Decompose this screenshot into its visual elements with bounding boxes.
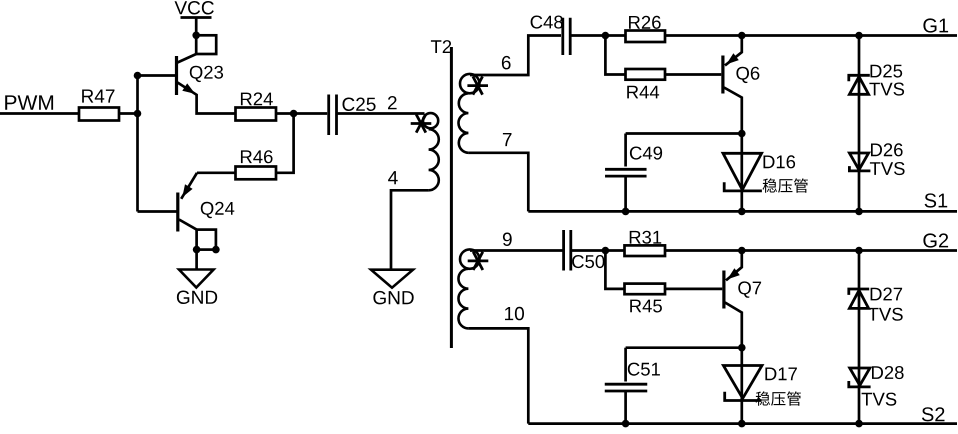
label C48 [531,16,563,29]
wire C25 to T2 pin2 [337,112,425,115]
label C49 [630,147,662,160]
Q24 collector loop square [197,230,216,250]
label R44 [627,86,659,99]
node S2 label [922,407,945,421]
wire R46 to Q24 emitter [197,171,236,174]
label D28 [872,366,904,379]
label D26 TVS [870,162,905,175]
wire to GND [195,250,198,270]
capacitor C50 [564,230,571,271]
label GND transformer [373,291,413,305]
junction Q23 base [134,72,142,80]
label Q24 [201,202,235,218]
node G2 label [923,233,948,247]
label T2 [431,40,451,53]
junction C48/R26/R44 [602,32,610,40]
wire junction down to R46 [276,114,294,173]
wire pin 6 to C48 [470,36,561,76]
capacitor C49 [605,169,647,176]
transformer T2 core [450,47,453,348]
label R31 [630,231,662,244]
pin 6 label [502,56,511,69]
zener diode D17 [740,348,743,424]
junction C50/R31/R45 [602,247,610,255]
label D17 [765,368,797,381]
label Q6 [736,67,759,83]
wire pin 10 down to S2 rail [468,328,528,423]
wire C50 to R31 [571,249,625,252]
label D25 [871,65,903,78]
polarity mark secondary 2 [468,252,489,270]
wire R47 to junction [119,112,138,115]
label D27 TVS [868,308,903,321]
TVS diode D26 [849,153,868,170]
label C25 [343,98,376,112]
junction square bottom-right [212,246,220,254]
resistor R46 [236,167,277,180]
wire junction down to R44 [605,36,625,75]
label R47 [82,90,114,103]
resistor R31 [625,245,666,256]
TVS diode D28 [850,368,870,385]
wire C49 to S1 rail [624,176,627,211]
pin 2 label [388,96,397,109]
node PWM label [5,95,53,109]
junction D17 / S2 [738,420,746,428]
TVS diode D27 [849,290,868,308]
junction TVS bottom / S1 [855,208,863,216]
resistor R44 [626,69,666,80]
label D16 zener (Chinese) [763,178,808,192]
label D17 zener (Chinese) [756,391,801,405]
ground GND (transformer pin 4) [371,270,413,288]
polarity mark primary [411,114,432,132]
wire TVS branch G2-S2 [858,251,861,424]
junction TVS top / G2 [855,247,863,255]
transistor Q6 [721,56,724,94]
transistor Q7 [722,271,725,309]
label D16 [764,155,796,168]
wire R31 to G2 [665,249,957,252]
transformer T2 secondary winding 1 [460,74,479,93]
TVS diode D25 [849,77,868,95]
label D26 [871,143,903,156]
wire R26 to G1 [665,34,957,37]
power VCC bar [181,16,212,19]
Q23 collector loop square [196,35,216,54]
junction Q7 collector / C51 / D17 [738,344,746,352]
power VCC label [175,1,214,15]
junction TVS top / G1 [855,32,863,40]
transformer T2 primary winding [423,113,438,128]
junction D16 / S1 [738,208,746,216]
label D27 [871,288,903,301]
wire S1 rail [528,210,957,213]
wire down to C51 [624,348,627,382]
junction Q6 emitter / G1 [738,32,746,40]
junction VCC/Q23 collector loop [192,32,200,40]
resistor R26 [626,31,666,43]
transistor Q23 [175,56,178,95]
label R26 [629,16,661,29]
capacitor C51 [605,384,648,391]
wire R44 to Q6 base [665,73,721,76]
label Q7 [738,281,761,297]
label GND driver [177,291,217,305]
resistor R24 [236,108,277,121]
wire down to C49 [624,134,627,167]
wire S2 rail [528,422,957,425]
node G1 label [923,18,948,32]
label D28 TVS [862,393,897,406]
junction C51 / S2 [622,420,630,428]
junction R47/base bus [134,110,142,118]
label Q23 [190,66,223,82]
label D25 TVS [869,83,904,96]
wire R45 to Q7 base [665,288,722,291]
label R24 [241,92,273,105]
wire Q7 collector to C51 [626,346,742,349]
transformer T2 secondary winding 2 [460,249,479,268]
junction C49 / S1 [622,208,630,216]
junction R24/R46 [290,110,298,118]
wire base bus vertical [136,76,139,212]
zener diode D16 [740,134,743,212]
resistor R45 [625,284,666,295]
wire R24 to C25 [276,112,327,115]
capacitor C48 [563,18,570,55]
ground GND (driver) [179,270,214,288]
wire PWM input [0,112,79,115]
junction Q6 collector / C49 / D16 [738,130,746,138]
junction square bottom-left [193,246,201,254]
junction TVS bottom / S2 [855,420,863,428]
resistor R47 [79,108,119,121]
capacitor C25 [329,94,337,135]
wire C51 to S2 rail [624,391,627,424]
label R46 [241,150,273,163]
transistor Q24 [176,193,179,232]
node S1 label [925,193,948,207]
label R45 [630,300,662,313]
pin 9 label [503,233,512,247]
wire to Q23 base [138,74,176,77]
wire pin 9 to C50 [470,249,563,252]
label C50 [572,255,604,268]
wire VCC down [195,18,198,37]
wire T2 pin4 to GND [391,190,429,269]
pin 7 label [503,133,512,146]
wire junction down to R45 [605,251,624,289]
pin 4 label [388,171,398,184]
wire Q6 collector to C49 [626,132,742,135]
polarity mark secondary 1 [467,77,488,95]
label C51 [628,363,660,376]
pin 10 label [505,307,524,321]
wire TVS branch G1-S1 [858,36,861,212]
junction Q7 emitter / G2 [738,247,746,255]
wire pin 7 down to S1 rail [468,153,528,212]
wire C48 to R26 [570,34,625,37]
